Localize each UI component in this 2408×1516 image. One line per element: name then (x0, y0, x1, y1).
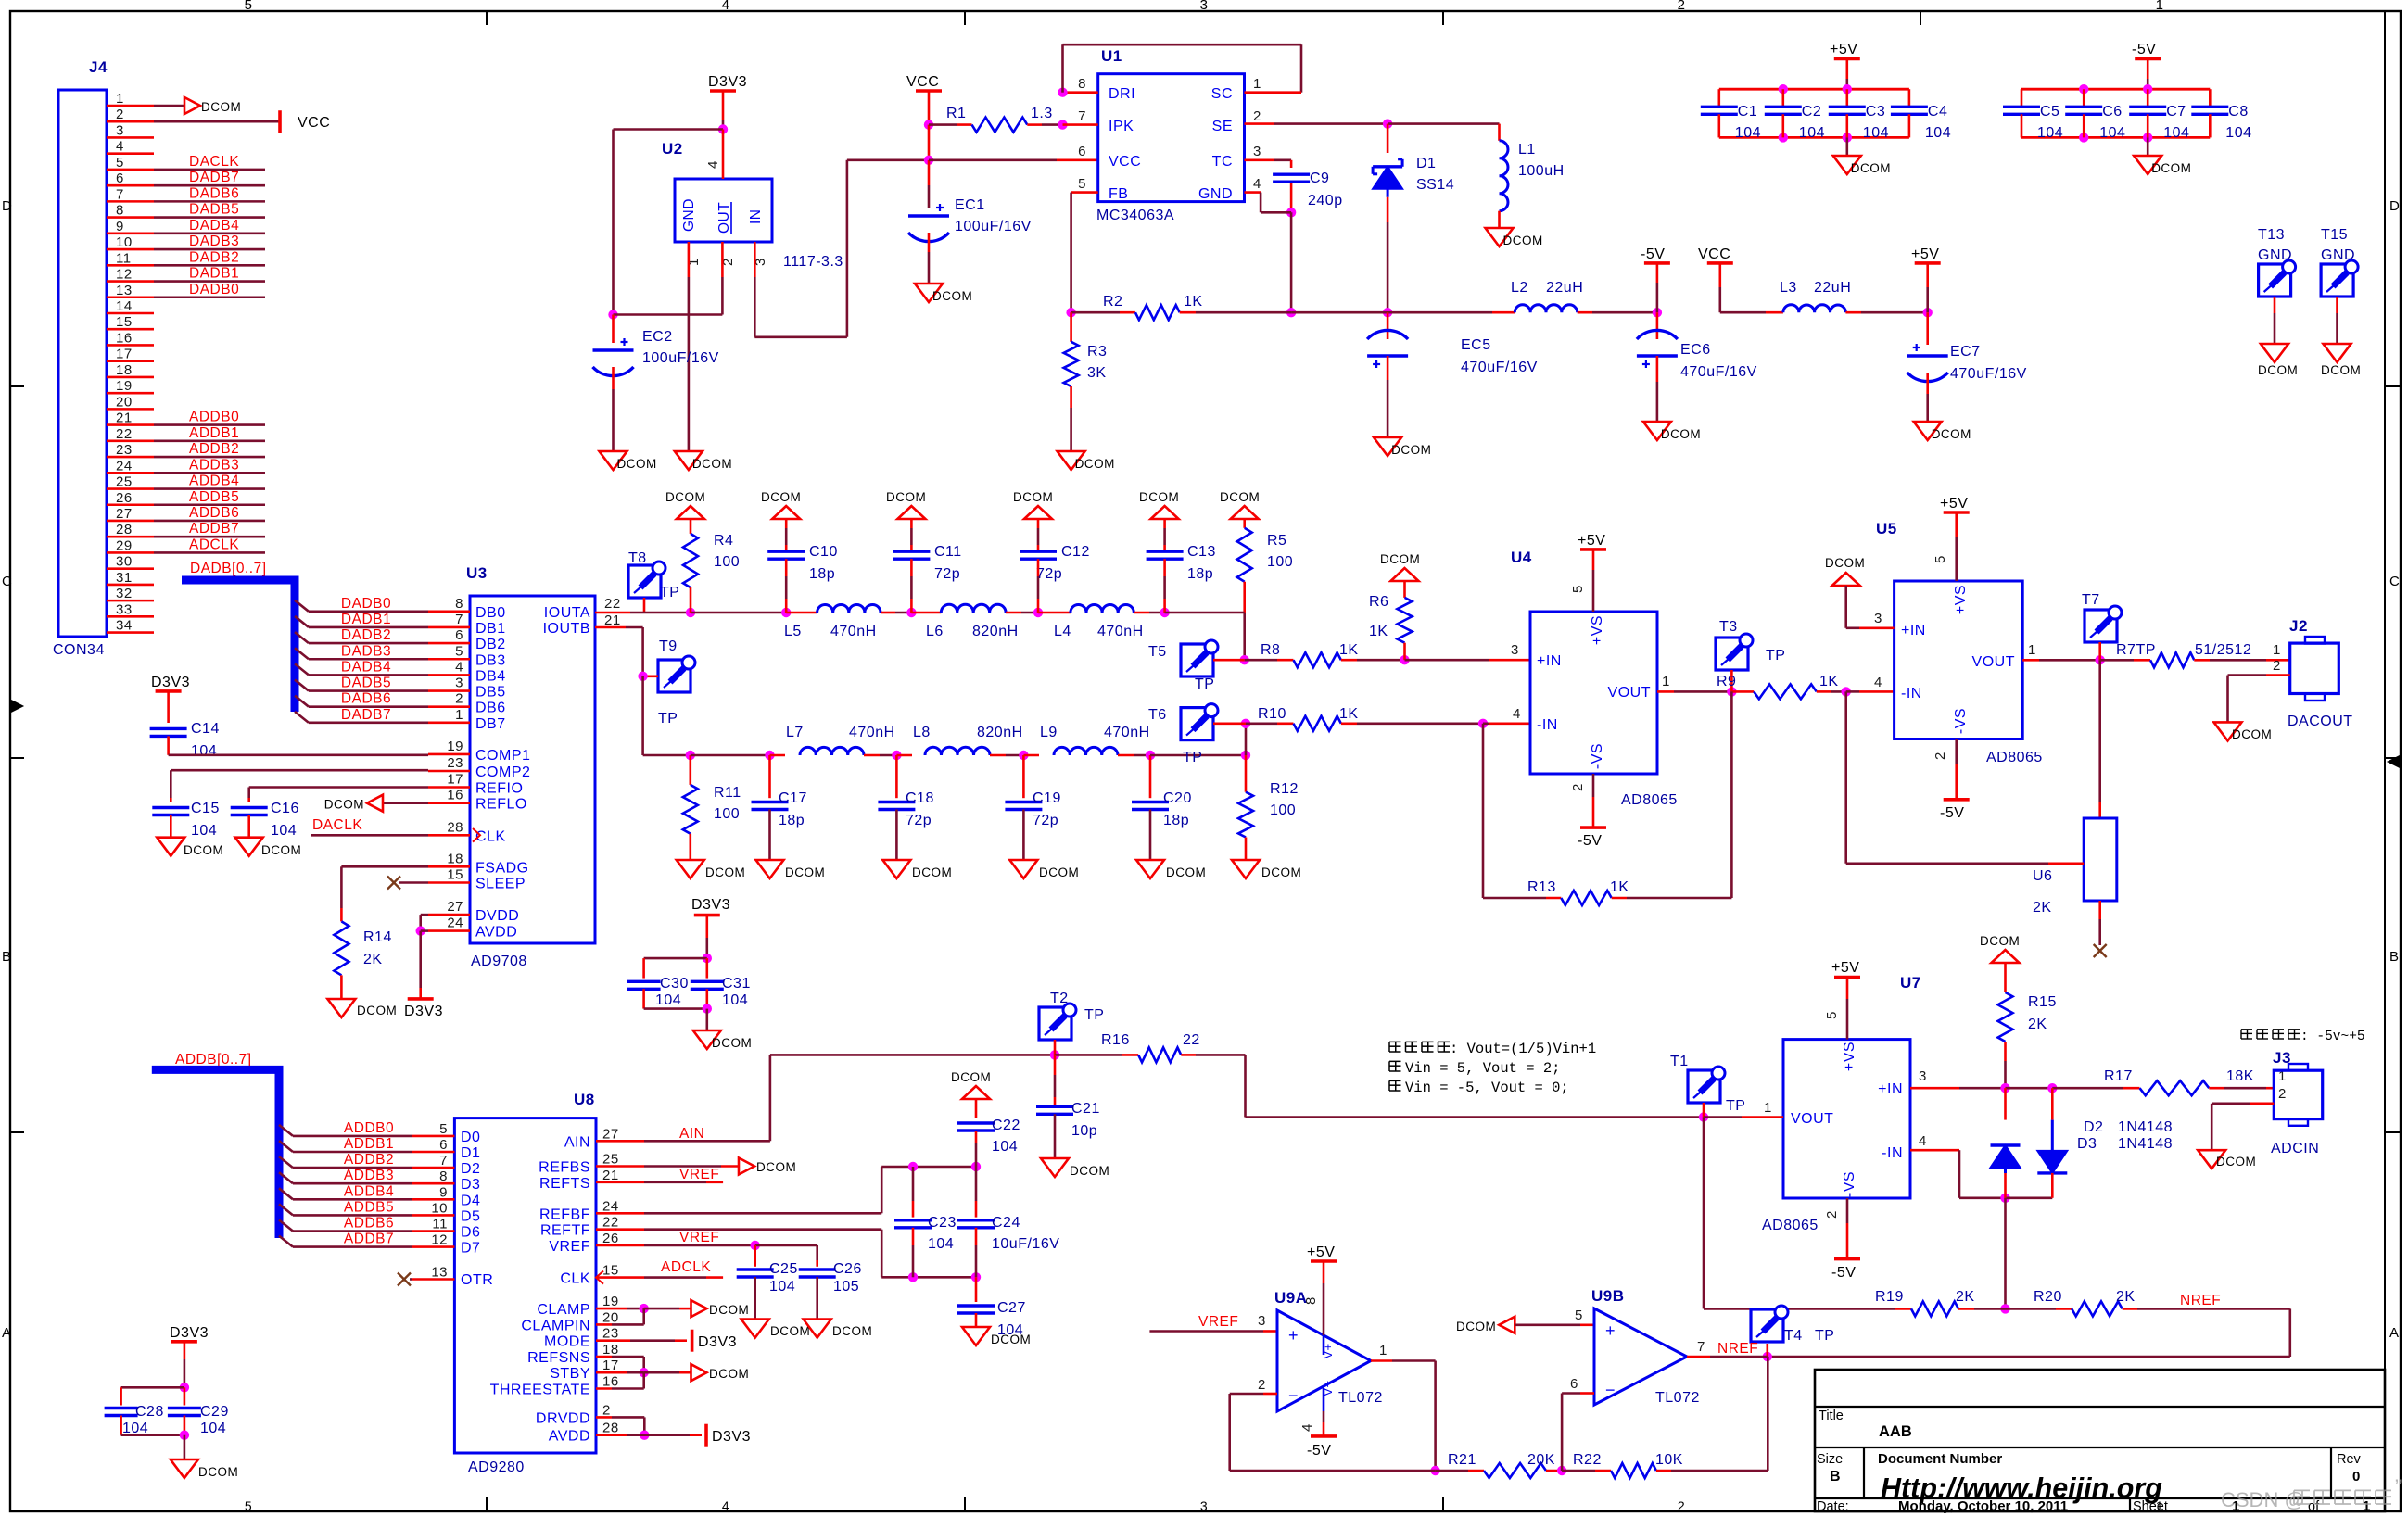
op-amp U9A TL072 (1274, 1289, 1383, 1411)
svg-text:17: 17 (602, 1358, 619, 1373)
resistor R7TP 51/2512 (2100, 642, 2290, 667)
power -5V at U4 (1570, 774, 1606, 849)
svg-text:DCOM: DCOM (932, 289, 972, 303)
capacitor C29 104 (168, 1387, 229, 1440)
ground DCOM C21 (1041, 1158, 1109, 1178)
svg-text:2: 2 (1933, 752, 1948, 760)
svg-text:DCOM: DCOM (201, 100, 241, 114)
ground DCOM above C13 (1139, 490, 1179, 519)
svg-text:DB0: DB0 (475, 605, 506, 621)
svg-text:1: 1 (1379, 1343, 1388, 1358)
svg-text:D3V3: D3V3 (708, 74, 747, 90)
diode D1 SS14 (1373, 124, 1454, 318)
svg-text:5: 5 (116, 155, 124, 171)
svg-text:R13: R13 (1527, 879, 1556, 895)
svg-text:1K: 1K (1819, 674, 1839, 689)
svg-text:−: − (1288, 1386, 1299, 1405)
svg-text:L7: L7 (786, 725, 804, 740)
svg-text:AVDD: AVDD (549, 1429, 590, 1445)
ground DCOM C19 (1009, 860, 1079, 879)
svg-text:DCOM: DCOM (2151, 161, 2191, 175)
resistor R22 10K (1562, 1357, 1768, 1478)
regulator U2 1117-3.3 (662, 130, 843, 271)
wire T7 node down to U6 (2098, 660, 2101, 818)
ground DCOM at REFLO (324, 795, 470, 812)
svg-text:R11: R11 (714, 785, 741, 801)
svg-text:C9: C9 (1310, 171, 1329, 186)
svg-text:DRI: DRI (1109, 86, 1135, 102)
svg-text:18K: 18K (2226, 1068, 2254, 1084)
ground DCOM C5-C8 group (2134, 137, 2191, 175)
svg-text:DCOM: DCOM (951, 1070, 991, 1084)
svg-text:ADDB4: ADDB4 (344, 1183, 394, 1199)
svg-text:Title: Title (1819, 1409, 1844, 1423)
svg-text:ADDB5: ADDB5 (189, 489, 239, 505)
svg-text:R9: R9 (1717, 674, 1736, 689)
svg-text:2: 2 (116, 107, 124, 122)
svg-text:104: 104 (1735, 125, 1761, 141)
DAC U3 AD9708 (447, 564, 620, 969)
svg-text:Document Number: Document Number (1878, 1451, 2002, 1467)
power +5V at U4 (1570, 533, 1606, 612)
wires C5-C8 rails (2021, 84, 2210, 143)
svg-text:DCOM: DCOM (198, 1465, 238, 1479)
svg-text:J2: J2 (2289, 617, 2308, 635)
testpoint T7 (2082, 592, 2122, 660)
svg-text:31: 31 (116, 570, 133, 586)
svg-text:REFLO: REFLO (475, 797, 527, 813)
svg-text:EC2: EC2 (642, 329, 673, 345)
inductor L6 820nH (911, 604, 1043, 639)
ground DCOM C18 (882, 860, 952, 879)
svg-text:”: ” (2395, 1475, 2402, 1498)
capacitor C8 104 (2191, 89, 2251, 141)
wire T1 node to U7 VOUT (1704, 1100, 1783, 1118)
svg-text:DADB6: DADB6 (189, 185, 239, 201)
svg-text:1K: 1K (1184, 294, 1203, 310)
resistor R16 22 (1055, 1032, 1708, 1122)
svg-text:104: 104 (769, 1279, 795, 1295)
capacitor EC5 470uF/16V (1367, 312, 1538, 437)
svg-text:REFSNS: REFSNS (527, 1350, 590, 1366)
wire D3V3 node to EC2 (608, 130, 723, 320)
svg-text:VREF: VREF (679, 1230, 719, 1245)
power D3V3 below R14 (404, 999, 443, 1019)
resistor R3 3K (1064, 312, 1108, 451)
svg-text:4: 4 (722, 1498, 729, 1513)
wires C1-C4 rails (1719, 84, 1909, 143)
svg-text:FSADG: FSADG (475, 860, 529, 876)
resistor R10 1K (1246, 706, 1530, 731)
svg-text:2: 2 (1258, 1377, 1266, 1393)
svg-text:4: 4 (1919, 1133, 1927, 1149)
svg-text:11: 11 (432, 1217, 448, 1232)
ground DCOM above C22 (951, 1070, 991, 1099)
ground DCOM L1 (1486, 228, 1543, 247)
svg-text:ADCIN: ADCIN (2271, 1141, 2319, 1156)
svg-text:DCOM: DCOM (991, 1333, 1031, 1346)
svg-text:DB6: DB6 (475, 701, 506, 716)
svg-text:C27: C27 (997, 1300, 1026, 1316)
wires DADB bus entries to U3 (295, 596, 470, 723)
svg-text:2K: 2K (363, 952, 383, 967)
ground DCOM C27 (962, 1327, 1031, 1346)
svg-text:D3V3: D3V3 (404, 1004, 443, 1019)
svg-text:20K: 20K (1527, 1452, 1555, 1468)
svg-text:-5V: -5V (1940, 805, 1964, 821)
svg-text:1: 1 (1764, 1100, 1772, 1116)
svg-text:5: 5 (1824, 1011, 1840, 1019)
ground DCOM R12 (1232, 860, 1301, 879)
svg-text:R2: R2 (1103, 294, 1122, 310)
svg-text:R12: R12 (1270, 781, 1299, 797)
power VCC bar top (906, 74, 942, 125)
svg-text:21: 21 (602, 1168, 619, 1183)
resistor R12 100 (1238, 755, 1299, 860)
svg-text:104: 104 (200, 1421, 226, 1436)
svg-text:12: 12 (431, 1232, 448, 1248)
svg-text:FB: FB (1109, 186, 1128, 202)
inductor L3 22uH (1780, 280, 1933, 317)
svg-text:DCOM: DCOM (2232, 727, 2272, 741)
svg-text:DCOM: DCOM (1825, 556, 1865, 570)
capacitor C2 104 (1765, 89, 1825, 141)
svg-text:-5V: -5V (1831, 1265, 1856, 1281)
svg-text:+VS: +VS (1953, 585, 1969, 614)
wire U7 -IN to diode rail (1910, 1133, 2052, 1203)
svg-text:3: 3 (1200, 0, 1209, 13)
capacitor C1 104 (1701, 89, 1761, 141)
ground DCOM C26 (804, 1320, 873, 1338)
svg-text:3: 3 (116, 122, 124, 138)
svg-text:+: + (1288, 1326, 1299, 1345)
svg-text:R4: R4 (714, 533, 733, 549)
resistor R9 1K (1717, 674, 1895, 699)
svg-text:R10: R10 (1258, 706, 1286, 722)
svg-text:104: 104 (2037, 125, 2063, 141)
svg-text:DCOM: DCOM (2216, 1155, 2256, 1169)
svg-text:D2: D2 (461, 1161, 480, 1177)
svg-text:EC6: EC6 (1680, 342, 1711, 358)
wire NREF return loop (1763, 1308, 2290, 1361)
svg-text:ADDB1: ADDB1 (189, 425, 239, 441)
svg-text:AD8065: AD8065 (1621, 792, 1678, 808)
ground DCOM above C10 (761, 490, 801, 519)
bus ADDB[0..7] (152, 1052, 279, 1238)
bus DADB[0..7] (182, 561, 295, 712)
ground DCOM at CLAMP (691, 1300, 750, 1317)
svg-text:33: 33 (116, 601, 133, 617)
connector J3 ADCIN (2271, 1049, 2323, 1156)
svg-text:4: 4 (722, 0, 730, 13)
svg-text:A: A (2389, 1325, 2400, 1341)
testpoint T15 GND (2321, 227, 2358, 344)
svg-text:7: 7 (439, 1153, 448, 1169)
svg-text:D5: D5 (461, 1208, 480, 1224)
svg-text:T6: T6 (1148, 707, 1167, 723)
svg-text:2: 2 (1678, 0, 1686, 13)
svg-text:C14: C14 (191, 721, 220, 737)
svg-text:SS14: SS14 (1416, 177, 1454, 193)
svg-text:CON34: CON34 (53, 642, 105, 658)
svg-text:1: 1 (2028, 642, 2036, 658)
svg-text:3: 3 (1253, 144, 1261, 159)
svg-text:DCOM: DCOM (756, 1160, 796, 1174)
svg-text:DCOM: DCOM (184, 843, 223, 857)
svg-text:SE: SE (1212, 119, 1233, 134)
svg-text:-VS: -VS (1953, 708, 1969, 734)
svg-text:T7: T7 (2082, 592, 2100, 608)
resistor R11 100 (683, 755, 741, 860)
svg-text:1: 1 (116, 91, 124, 107)
svg-text:C25: C25 (769, 1261, 798, 1277)
svg-text:OUT: OUT (716, 202, 732, 234)
svg-text:100uF/16V: 100uF/16V (642, 350, 719, 366)
svg-text:VREF: VREF (1198, 1314, 1238, 1330)
svg-text:D: D (2, 198, 12, 214)
svg-text:DCOM: DCOM (1851, 161, 1891, 175)
svg-text:C8: C8 (2228, 104, 2248, 120)
diode D3 1N4148 (2037, 1088, 2173, 1198)
ground DCOM R11 (677, 860, 745, 879)
ADC U8 AD9280 (431, 1091, 618, 1475)
svg-text:4: 4 (1513, 706, 1521, 722)
svg-text:DCOM: DCOM (709, 1367, 749, 1381)
svg-text:R3: R3 (1087, 344, 1107, 360)
capacitor C19 72p (1005, 755, 1060, 860)
svg-text:19: 19 (116, 378, 133, 394)
svg-text:-5V: -5V (2132, 42, 2156, 57)
svg-text:2K: 2K (2033, 900, 2052, 916)
svg-text:12: 12 (116, 267, 133, 283)
svg-text:+5V: +5V (1831, 960, 1859, 976)
svg-text:20: 20 (116, 394, 133, 410)
svg-text:DCOM: DCOM (1661, 427, 1701, 441)
ground DCOM at U5 +IN (1825, 556, 1895, 628)
svg-text:16: 16 (116, 330, 133, 346)
svg-text:DADB2: DADB2 (189, 249, 239, 265)
connector J4 (CON34) (53, 58, 154, 658)
svg-text:DCOM: DCOM (2258, 363, 2298, 377)
svg-text:C29: C29 (200, 1404, 229, 1420)
note input range text (2241, 1030, 2365, 1044)
svg-text:L6: L6 (926, 624, 944, 639)
net label NREF at T4 (1717, 1341, 1758, 1357)
svg-text:23: 23 (602, 1326, 619, 1342)
title block (1815, 1370, 2385, 1514)
svg-text:U6: U6 (2033, 868, 2052, 884)
svg-text:L5: L5 (784, 624, 802, 639)
svg-text:5: 5 (439, 1121, 448, 1137)
wire COMP2 to C15 (171, 770, 470, 798)
svg-text:B: B (2389, 949, 2400, 965)
wire U5 feedback to U6 (1846, 691, 2085, 863)
resistor R19 2K (1751, 1289, 2006, 1316)
svg-text:IN: IN (748, 209, 764, 225)
svg-text:26: 26 (602, 1231, 619, 1246)
svg-text:-IN: -IN (1882, 1145, 1903, 1161)
resistor R17 18K (2104, 1068, 2287, 1095)
svg-text:DACOUT: DACOUT (2288, 714, 2353, 729)
svg-text:5: 5 (1933, 555, 1948, 563)
svg-text:DADB2: DADB2 (341, 627, 391, 643)
capacitor C23 104 (894, 1167, 957, 1277)
wire IOUTA rail (595, 608, 817, 617)
svg-text:C11: C11 (934, 544, 962, 560)
svg-text:STBY: STBY (550, 1366, 590, 1382)
svg-text:3: 3 (1200, 1498, 1208, 1513)
svg-text:: Vout=(1/5)Vin+1: : Vout=(1/5)Vin+1 (1450, 1041, 1596, 1057)
wire U9B pin6 feedback (1562, 1376, 1594, 1471)
svg-text:DADB3: DADB3 (189, 234, 239, 249)
svg-text:4: 4 (705, 160, 721, 169)
ground DCOM above R5 (1220, 490, 1260, 519)
svg-text:2K: 2K (1956, 1289, 1975, 1305)
wire VCC vertical to EC1 (924, 120, 933, 208)
wire IOUTB rail to C17 (691, 751, 775, 760)
capacitor C26 105 (799, 1260, 862, 1320)
no-connect X on OTR (398, 1273, 454, 1286)
svg-text:2: 2 (1570, 783, 1586, 791)
svg-text:ADDB[0..7]: ADDB[0..7] (175, 1052, 252, 1068)
svg-text:AD9708: AD9708 (471, 954, 527, 969)
svg-text:DCOM: DCOM (357, 1004, 397, 1017)
svg-text:22: 22 (602, 1215, 619, 1231)
svg-text:R7TP: R7TP (2116, 642, 2156, 658)
svg-text:U5: U5 (1876, 520, 1897, 537)
svg-text:EC1: EC1 (955, 197, 985, 213)
svg-text:19: 19 (602, 1294, 619, 1309)
svg-text:18p: 18p (809, 566, 835, 582)
svg-text:C21: C21 (1071, 1101, 1100, 1117)
svg-text:22uH: 22uH (1546, 280, 1583, 296)
wire J3 pin2 to DCOM (2212, 1086, 2287, 1150)
svg-text:Monday, October 10, 2011: Monday, October 10, 2011 (1898, 1498, 2068, 1514)
wire U4 VOUT to T3 node (1657, 674, 1737, 697)
wire U7 +IN rail (1910, 1068, 2123, 1093)
capacitor C20 18p (1132, 755, 1192, 860)
svg-text:C5: C5 (2040, 104, 2059, 120)
svg-text:DCOM: DCOM (709, 1303, 749, 1317)
svg-text:100: 100 (1270, 802, 1296, 818)
svg-text:DCOM: DCOM (1166, 865, 1206, 879)
svg-text:R20: R20 (2034, 1289, 2062, 1305)
capacitor C10 18p (767, 519, 838, 613)
svg-text:D4: D4 (461, 1193, 480, 1208)
svg-text:104: 104 (2225, 125, 2251, 141)
svg-text:TL072: TL072 (1338, 1390, 1383, 1406)
ground DCOM C28/C29 (171, 1435, 238, 1479)
svg-text:100: 100 (714, 806, 740, 822)
svg-text:ADDB3: ADDB3 (344, 1168, 394, 1183)
svg-text:104: 104 (928, 1236, 954, 1252)
svg-text:2: 2 (2273, 658, 2281, 674)
svg-text:TP: TP (1766, 648, 1785, 663)
inductor L1 100uH (1500, 124, 1565, 228)
svg-text:28: 28 (116, 522, 133, 537)
svg-text:1K: 1K (1610, 879, 1629, 895)
testpoint T9 (643, 638, 695, 726)
svg-text:DCOM: DCOM (1075, 457, 1115, 471)
wire CLAMP/CLAMPIN to DCOM (596, 1304, 691, 1325)
svg-text:C30: C30 (660, 976, 689, 992)
svg-text:13: 13 (431, 1265, 448, 1281)
svg-text:C18: C18 (906, 790, 934, 806)
ground DCOM at J4 pin 1 (154, 97, 241, 114)
svg-text:18: 18 (116, 362, 133, 378)
svg-text:U8: U8 (574, 1091, 595, 1108)
svg-text:6: 6 (439, 1137, 448, 1153)
svg-text:1N4148: 1N4148 (2118, 1136, 2173, 1152)
svg-text:DCOM: DCOM (761, 490, 801, 504)
svg-text:R19: R19 (1875, 1289, 1904, 1305)
power -5V at U9A (1299, 1388, 1337, 1459)
inductor L5 470nH (784, 604, 917, 639)
svg-text:D1: D1 (461, 1145, 480, 1161)
svg-text:26: 26 (116, 490, 133, 506)
svg-text:VOUT: VOUT (1791, 1111, 1833, 1127)
svg-text:Date:: Date: (1817, 1499, 1849, 1514)
power D3V3 above C28/C29 (170, 1325, 209, 1393)
capacitor C13 18p (1147, 519, 1216, 613)
svg-text:U9B: U9B (1591, 1287, 1625, 1305)
svg-text:100uH: 100uH (1518, 163, 1565, 179)
svg-text:15: 15 (447, 867, 463, 883)
svg-text:DCOM: DCOM (1013, 490, 1053, 504)
svg-text:T1: T1 (1670, 1054, 1689, 1069)
svg-text:+IN: +IN (1537, 653, 1562, 669)
svg-text:+5V: +5V (1911, 246, 1939, 262)
svg-text:ADDB0: ADDB0 (344, 1120, 394, 1136)
svg-text:28: 28 (447, 819, 463, 835)
ground DCOM at REFBS (596, 1158, 796, 1175)
wire DRVDD/AVDD to D3V3 (596, 1417, 751, 1446)
svg-text:DADB6: DADB6 (341, 691, 391, 707)
svg-text:DB5: DB5 (475, 685, 506, 701)
svg-text:1: 1 (2273, 642, 2281, 658)
svg-text:VCC: VCC (906, 74, 939, 90)
wire U2 pin3 IN to VCC rail (754, 160, 929, 337)
svg-text:TP: TP (1195, 676, 1214, 692)
svg-text:6: 6 (1078, 144, 1086, 159)
svg-text:R16: R16 (1101, 1032, 1130, 1048)
inductor L4 470nH (1038, 604, 1170, 639)
svg-text:23: 23 (447, 755, 463, 771)
wire VCC rail to U1 pin6 (929, 159, 1098, 162)
svg-text:470uF/16V: 470uF/16V (1950, 366, 2027, 382)
svg-text:-IN: -IN (1901, 686, 1922, 701)
svg-text:5: 5 (245, 1498, 252, 1513)
wire U5 VOUT to T7 node (2022, 642, 2105, 665)
svg-text:REFBF: REFBF (539, 1206, 590, 1222)
svg-text:C20: C20 (1163, 790, 1192, 806)
svg-text:7: 7 (1697, 1339, 1705, 1355)
svg-text:105: 105 (833, 1279, 859, 1295)
svg-text:3K: 3K (1087, 365, 1107, 381)
svg-text:TL072: TL072 (1655, 1390, 1700, 1406)
svg-text:REFBS: REFBS (539, 1160, 590, 1176)
svg-text:+: + (1605, 1321, 1616, 1340)
power -5V at U5 (1933, 739, 1970, 822)
svg-text:15: 15 (602, 1263, 619, 1279)
testpoint T2 (1039, 991, 1104, 1055)
svg-text:240p: 240p (1308, 193, 1343, 208)
resistor R1 1.3 (929, 106, 1098, 133)
svg-text:18: 18 (602, 1342, 619, 1358)
svg-text:1N4148: 1N4148 (2118, 1119, 2173, 1135)
svg-text:C15: C15 (191, 801, 220, 816)
svg-text:VOUT: VOUT (1972, 654, 2015, 670)
